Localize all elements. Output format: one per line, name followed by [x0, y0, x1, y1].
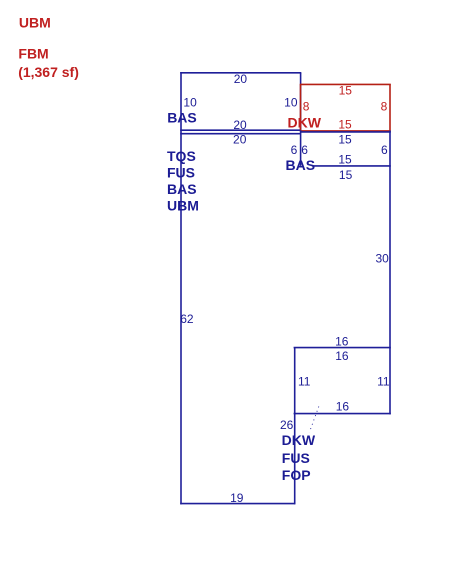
svg-text:BAS: BAS: [167, 181, 197, 197]
wall top of 16-rect y=347.6: [294, 347, 391, 349]
svg-text:30: 30: [375, 251, 389, 265]
wall bottom of 16-rect y=413.6: [294, 413, 391, 415]
svg-text:FBM: FBM: [18, 45, 48, 61]
svg-text:15: 15: [339, 168, 353, 182]
svg-text:15: 15: [338, 118, 352, 132]
svg-text:62: 62: [180, 312, 194, 326]
svg-text:6: 6: [291, 143, 298, 157]
svg-text:10: 10: [183, 95, 197, 109]
wall left x=294.4 from 16-rect top to bottom line: [294, 348, 296, 505]
deck DKW red bottom edge (under blue line): [300, 130, 391, 132]
svg-text:UBM: UBM: [167, 198, 199, 214]
wall bottom of BAS upper rect y=130.4: [180, 129, 301, 131]
svg-text:15: 15: [338, 152, 352, 166]
svg-text:DKW: DKW: [282, 432, 316, 448]
svg-text:16: 16: [335, 349, 349, 363]
svg-text:20: 20: [233, 118, 247, 132]
wall top of BAS upper rect y=72.8: [180, 72, 301, 74]
svg-text:16: 16: [335, 334, 349, 348]
svg-text:(1,367 sf): (1,367 sf): [18, 64, 79, 80]
wall top of 6-rect y=131.9 (right): [301, 131, 391, 133]
svg-text:11: 11: [298, 374, 311, 388]
wall bottom of 6-rect y=165.9: [313, 165, 391, 167]
svg-text:20: 20: [234, 72, 248, 86]
svg-text:TQS: TQS: [167, 148, 196, 164]
wall left edge x=181 full height: [180, 72, 182, 504]
svg-text:6: 6: [381, 143, 388, 157]
svg-text:FOP: FOP: [282, 467, 311, 483]
svg-text:19: 19: [230, 491, 244, 505]
svg-text:UBM: UBM: [19, 15, 51, 31]
svg-text:15: 15: [338, 132, 352, 146]
svg-text:BAS: BAS: [167, 109, 197, 125]
svg-text:11: 11: [377, 374, 390, 388]
svg-text:6: 6: [301, 143, 308, 157]
deck DKW red rectangle outline: [300, 84, 391, 130]
wall top of big polygon y=133.4 (left): [180, 133, 301, 135]
svg-text:26: 26: [280, 418, 294, 432]
svg-text:FUS: FUS: [167, 164, 195, 180]
svg-text:8: 8: [381, 99, 388, 113]
svg-text:10: 10: [284, 95, 298, 109]
leader dotted line to DKW/FUS/FOP label: [309, 407, 319, 433]
svg-text:FUS: FUS: [282, 450, 310, 466]
svg-text:DKW: DKW: [288, 114, 322, 130]
svg-text:20: 20: [233, 133, 247, 147]
wall bottom y=503.6 (19): [180, 503, 295, 505]
svg-text:15: 15: [339, 83, 353, 97]
svg-text:16: 16: [336, 399, 350, 413]
svg-text:BAS: BAS: [286, 157, 316, 173]
svg-text:8: 8: [303, 99, 310, 113]
wall right edge x=390 from 6-rect top down to 16-rect bottom: [389, 130, 391, 414]
wall vertical x=300.6 between BAS rect and DKW down to 6-rect bottom: [300, 73, 302, 166]
